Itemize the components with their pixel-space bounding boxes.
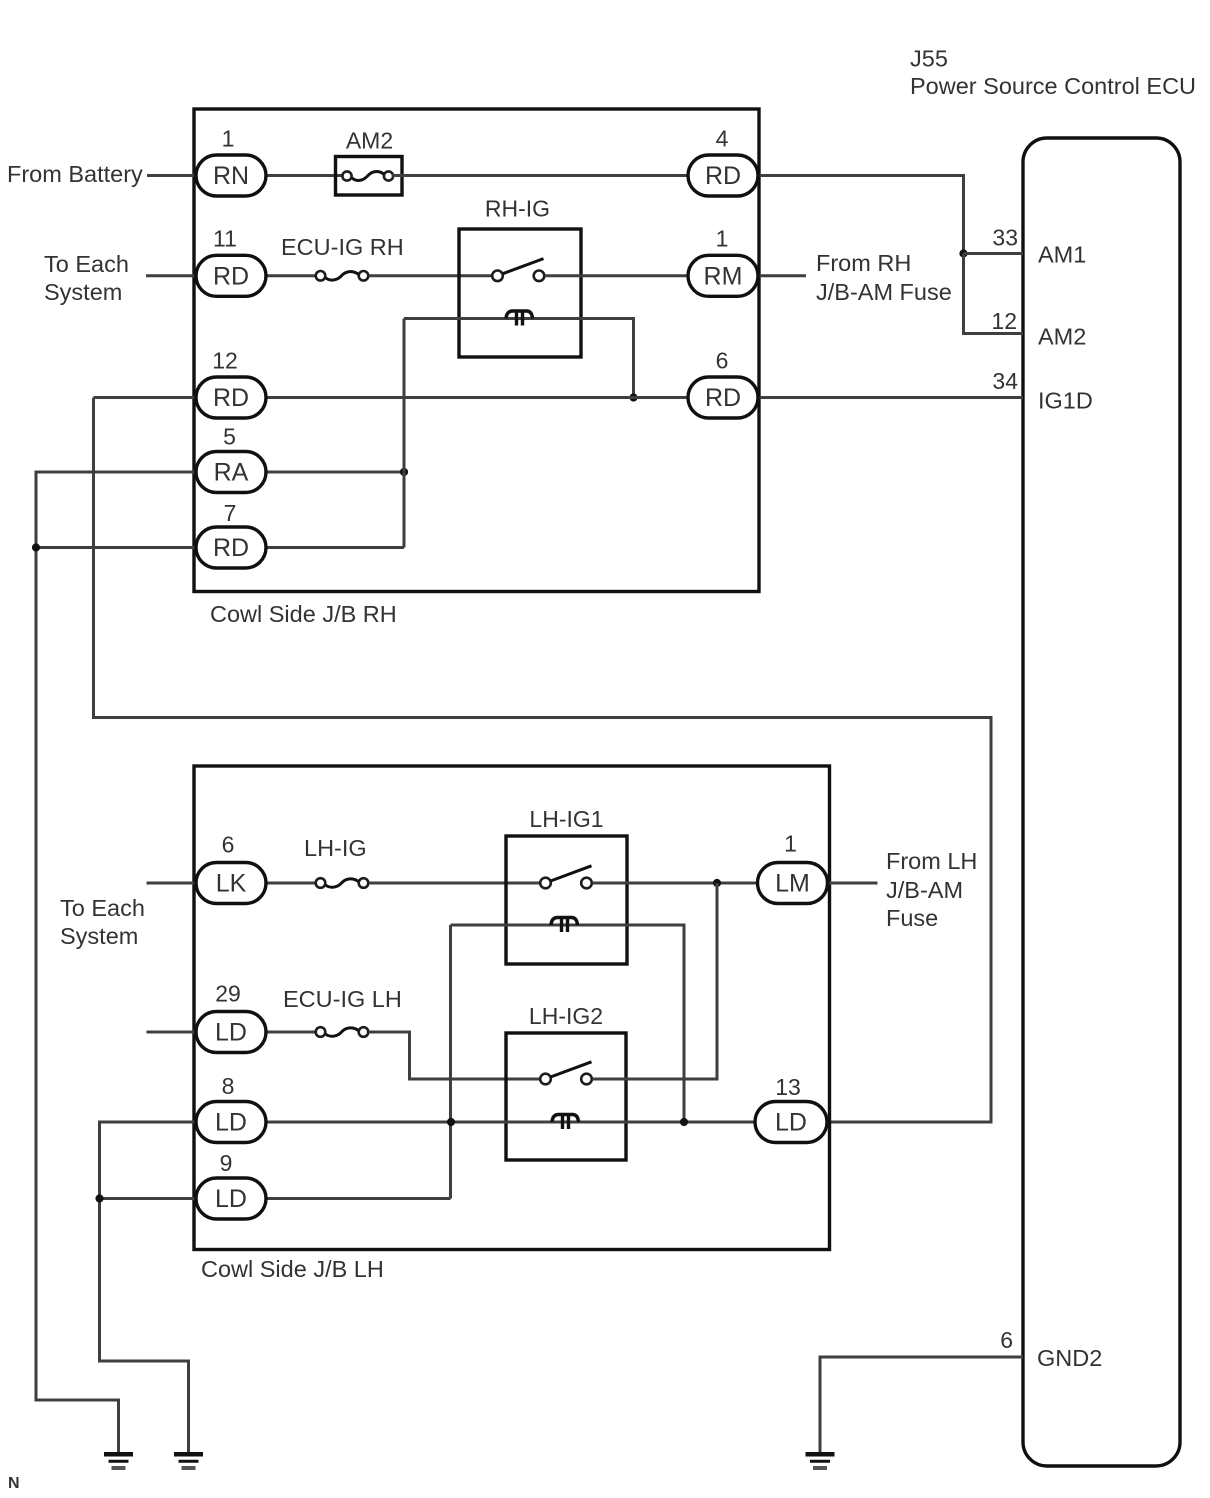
wire From Battery stub [147, 174, 196, 177]
svg-text:System: System [44, 279, 122, 305]
connector oval RD pin 4 [688, 155, 758, 196]
wire LD29 stub [147, 1031, 197, 1034]
svg-text:8: 8 [222, 1073, 235, 1099]
svg-text:1: 1 [222, 126, 235, 152]
svg-text:To Each: To Each [44, 251, 129, 277]
relay RH-IG box [459, 229, 581, 357]
svg-text:Cowl Side J/B RH: Cowl Side J/B RH [210, 601, 397, 627]
connector oval LD pin 29 [196, 1012, 266, 1053]
svg-text:6: 6 [222, 832, 235, 858]
svg-text:1: 1 [784, 831, 797, 857]
svg-text:From RH: From RH [816, 250, 911, 276]
fuse AM2 right terminal [384, 171, 393, 180]
svg-text:1: 1 [716, 226, 729, 252]
relay LH-IG2 switch right contact [581, 1074, 592, 1085]
coil RH-IG [506, 311, 533, 319]
node LD9 ground tee [95, 1194, 103, 1202]
svg-text:ECU-IG RH: ECU-IG RH [281, 234, 404, 260]
svg-text:6: 6 [716, 348, 729, 374]
svg-text:AM2: AM2 [346, 128, 393, 154]
svg-text:LK: LK [216, 870, 247, 898]
svg-text:LH-IG1: LH-IG1 [529, 806, 603, 832]
connector oval LD pin 13 [755, 1102, 827, 1143]
connector oval RM pin 1 [688, 255, 758, 296]
wire LD29 to fuse [266, 1031, 315, 1034]
fuse ECU-IG RH left terminal [316, 271, 326, 281]
svg-text:13: 13 [775, 1074, 801, 1100]
svg-text:From LH: From LH [886, 848, 977, 874]
ECU J55 body [1023, 138, 1180, 1466]
wire RD7 right [266, 546, 404, 549]
svg-text:RD: RD [213, 384, 249, 412]
svg-text:RD: RD [705, 384, 741, 412]
relay LH-IG2 box [506, 1033, 626, 1160]
Cowl Side J/B LH box [194, 766, 830, 1250]
svg-text:Cowl Side J/B LH: Cowl Side J/B LH [201, 1256, 384, 1282]
svg-text:LD: LD [215, 1019, 247, 1047]
ground 3 GND2 [806, 1454, 835, 1468]
svg-text:RM: RM [704, 262, 743, 290]
wire coil LH-IG1 row [451, 925, 685, 1122]
connector oval RD pin 11 [196, 255, 266, 296]
fuse LH-IG left terminal [316, 878, 326, 888]
svg-text:J55: J55 [910, 46, 948, 72]
connector oval RD pin 7 [196, 527, 266, 568]
wire RD4 to ECU corner [756, 176, 964, 254]
wire fuse to relay LH-IG2 [369, 1032, 540, 1079]
wire RA tee to coil RH-IG [404, 319, 634, 398]
svg-text:RD: RD [705, 162, 741, 190]
svg-text:LD: LD [215, 1185, 247, 1213]
wire LD9 right [264, 1197, 451, 1200]
wire LM stub right [826, 882, 878, 885]
fuse LH-IG right terminal [359, 878, 369, 888]
wire RD12 left [94, 396, 197, 399]
Cowl Side J/B RH box [194, 109, 759, 592]
fuse ECU-IG RH right terminal [359, 271, 369, 281]
svg-text:29: 29 [215, 981, 241, 1007]
svg-text:LD: LD [775, 1109, 807, 1137]
wire to pin 33 AM1 [964, 252, 1024, 255]
wire RD7 left [36, 546, 196, 549]
svg-text:LH-IG2: LH-IG2 [529, 1003, 603, 1029]
wire fuse to relay LH-IG1 [369, 882, 540, 885]
wire AM2 to RD4 [392, 174, 690, 177]
relay LH-IG2 switch blade [551, 1062, 592, 1077]
svg-text:Fuse: Fuse [886, 905, 938, 931]
wire RA right [266, 471, 404, 474]
connector oval LK pin 6 [196, 863, 266, 904]
svg-text:GND2: GND2 [1037, 1345, 1102, 1371]
relay LH-IG1 switch right contact [581, 878, 592, 889]
relay LH-IG1 box [506, 836, 627, 964]
svg-text:IG1D: IG1D [1038, 388, 1093, 414]
wire switch LH-IG2 to LK row [593, 883, 718, 1079]
fuse ECU-IG RH element [326, 272, 359, 280]
svg-text:System: System [60, 923, 138, 949]
ground 1 [104, 1454, 133, 1468]
svg-text:RD: RD [213, 262, 249, 290]
wire LD8 to LD13 through coil [266, 1121, 759, 1124]
connector oval RN pin 1 [196, 155, 266, 196]
svg-text:12: 12 [212, 348, 238, 374]
svg-text:9: 9 [220, 1150, 233, 1176]
node pin33 tee [959, 249, 967, 257]
svg-text:11: 11 [213, 226, 237, 252]
ground 2 [174, 1454, 203, 1468]
wire LD8 left to ground 2 [100, 1122, 197, 1452]
fuse ECU-IG LH element [326, 1028, 359, 1036]
wire LK to fuse [266, 882, 315, 885]
coil LH-IG1 [551, 918, 578, 926]
svg-text:AM2: AM2 [1038, 324, 1086, 350]
relay LH-IG2 switch left contact [540, 1074, 551, 1085]
relay LH-IG1 switch left contact [540, 878, 551, 889]
node RD7 ground tee [32, 543, 40, 551]
wire switch to RM [545, 274, 690, 277]
connector oval RD pin 6 [688, 377, 758, 418]
wire To Each System stub RH [146, 274, 196, 277]
node LK row tee [713, 879, 721, 887]
svg-text:6: 6 [1000, 1327, 1013, 1353]
node LD8 coil tee [447, 1118, 455, 1126]
wire coil tee vertical [403, 319, 406, 548]
wire to pin 12 AM2 [964, 254, 1024, 334]
node LD13 coil tee [680, 1118, 688, 1126]
svg-text:RA: RA [214, 459, 249, 487]
svg-text:LM: LM [775, 870, 810, 898]
wire RD12 to RD6 [266, 396, 690, 399]
wire switch to LM [593, 882, 760, 885]
svg-text:RH-IG: RH-IG [485, 196, 550, 222]
svg-text:7: 7 [224, 500, 237, 526]
fuse ECU-IG LH left terminal [316, 1027, 326, 1037]
connector oval LM pin 1 [758, 863, 828, 904]
svg-text:5: 5 [223, 424, 236, 450]
svg-text:From Battery: From Battery [7, 161, 143, 187]
wire RD6 to pin 34 IG1D [756, 396, 1023, 399]
svg-text:J/B-AM: J/B-AM [886, 877, 963, 903]
relay RH-IG switch blade [503, 259, 544, 274]
wire RD12 to LD13 interconnect [94, 398, 992, 1123]
svg-text:34: 34 [992, 368, 1018, 394]
svg-text:LD: LD [215, 1109, 247, 1137]
wire RM stub right [756, 274, 806, 277]
wire LH-IG1 coil left drop [449, 925, 452, 1199]
relay LH-IG1 switch blade [551, 866, 592, 881]
svg-text:12: 12 [991, 308, 1017, 334]
relay RH-IG switch right contact [534, 271, 545, 282]
svg-text:RD: RD [213, 534, 249, 562]
node coil drop on RD12 row [629, 393, 637, 401]
svg-text:J/B-AM Fuse: J/B-AM Fuse [816, 279, 952, 305]
coil LH-IG2 [552, 1115, 579, 1123]
fuse AM2 element [352, 172, 384, 181]
svg-text:To Each: To Each [60, 895, 145, 921]
connector oval RA pin 5 [196, 452, 266, 493]
connector oval LD pin 9 [196, 1178, 266, 1219]
connector oval LD pin 8 [196, 1102, 266, 1143]
svg-text:LH-IG: LH-IG [304, 835, 367, 861]
connector oval RD pin 12 [196, 377, 266, 418]
svg-text:Power Source Control ECU: Power Source Control ECU [910, 73, 1196, 99]
svg-text:RN: RN [213, 162, 249, 190]
wire RN to fuse AM2 [267, 174, 343, 177]
wire LD9 left [100, 1197, 197, 1200]
wire fuse to relay RH-IG [369, 274, 491, 277]
node RA tee [400, 468, 408, 476]
svg-text:N: N [8, 1475, 20, 1492]
fuse ECU-IG LH right terminal [359, 1027, 369, 1037]
svg-text:ECU-IG LH: ECU-IG LH [283, 986, 402, 1012]
svg-text:33: 33 [992, 225, 1018, 251]
wire RA left to ground 1 [36, 472, 196, 1452]
relay RH-IG switch left contact [492, 271, 503, 282]
wire GND2 pin 6 [820, 1357, 1023, 1452]
fuse LH-IG element [326, 879, 359, 887]
fuse AM2 left terminal [342, 171, 351, 180]
svg-text:4: 4 [716, 126, 729, 152]
fuse AM2 box [336, 157, 403, 196]
svg-text:AM1: AM1 [1038, 242, 1086, 268]
wire LK stub [147, 882, 197, 885]
wire RD11 to fuse [266, 274, 315, 277]
